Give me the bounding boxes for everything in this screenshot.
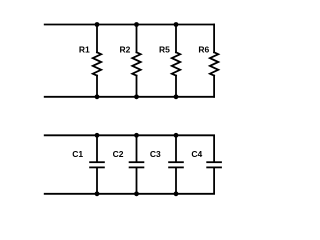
junction: C3 / bottom rail (174, 191, 179, 196)
wire: C2 top lead (136, 135, 138, 162)
wire: C1 top lead (96, 135, 98, 162)
resistor R6 (210, 52, 218, 75)
junction: R2 / top rail (134, 22, 139, 27)
junction: R5 / top rail (174, 22, 179, 27)
junction: R1 / bottom rail (95, 94, 100, 99)
wire: R6 bottom lead (213, 76, 215, 97)
wire: R2 bottom lead (136, 76, 138, 97)
wire: C4 top lead (213, 135, 215, 162)
svg-text:R2: R2 (120, 45, 131, 55)
resistor R5 (172, 52, 180, 75)
wire: R6 top lead (213, 25, 215, 53)
junction: C2 / bottom rail (134, 191, 139, 196)
wire: resistor-bank bottom rail (node B) (45, 96, 214, 98)
junction: R1 / top rail (95, 22, 100, 27)
wire: capacitor-bank bottom rail (node D) (45, 193, 214, 195)
wire: C3 top lead (175, 135, 177, 162)
svg-text:R6: R6 (198, 45, 209, 55)
svg-text:C4: C4 (191, 149, 202, 159)
wire: R5 bottom lead (175, 76, 177, 97)
wire: R2 top lead (136, 25, 138, 53)
junction: C1 / top rail (95, 133, 100, 138)
capacitor C3 (168, 162, 184, 167)
svg-text:C1: C1 (72, 149, 83, 159)
junction: C1 / bottom rail (95, 191, 100, 196)
capacitor C1 (89, 162, 105, 167)
junction: R2 / bottom rail (134, 94, 139, 99)
svg-text:C2: C2 (113, 149, 124, 159)
wire: resistor-bank top rail (node A) (45, 24, 214, 26)
wire: R1 top lead (96, 25, 98, 53)
svg-text:R5: R5 (159, 45, 170, 55)
svg-text:R1: R1 (79, 45, 90, 55)
capacitor C4 (206, 162, 222, 167)
junction: C3 / top rail (174, 133, 179, 138)
resistor R2 (132, 52, 140, 75)
wire: R5 top lead (175, 25, 177, 53)
junction: R5 / bottom rail (174, 94, 179, 99)
svg-text:C3: C3 (150, 149, 161, 159)
wire: C2 bottom lead (136, 167, 138, 193)
wire: C3 bottom lead (175, 167, 177, 193)
wire: capacitor-bank top rail (node C) (45, 134, 214, 136)
resistor R1 (93, 52, 101, 75)
wire: C1 bottom lead (96, 167, 98, 193)
capacitor C2 (129, 162, 145, 167)
wire: C4 bottom lead (213, 167, 215, 193)
junction: C2 / top rail (134, 133, 139, 138)
wire: R1 bottom lead (96, 76, 98, 97)
